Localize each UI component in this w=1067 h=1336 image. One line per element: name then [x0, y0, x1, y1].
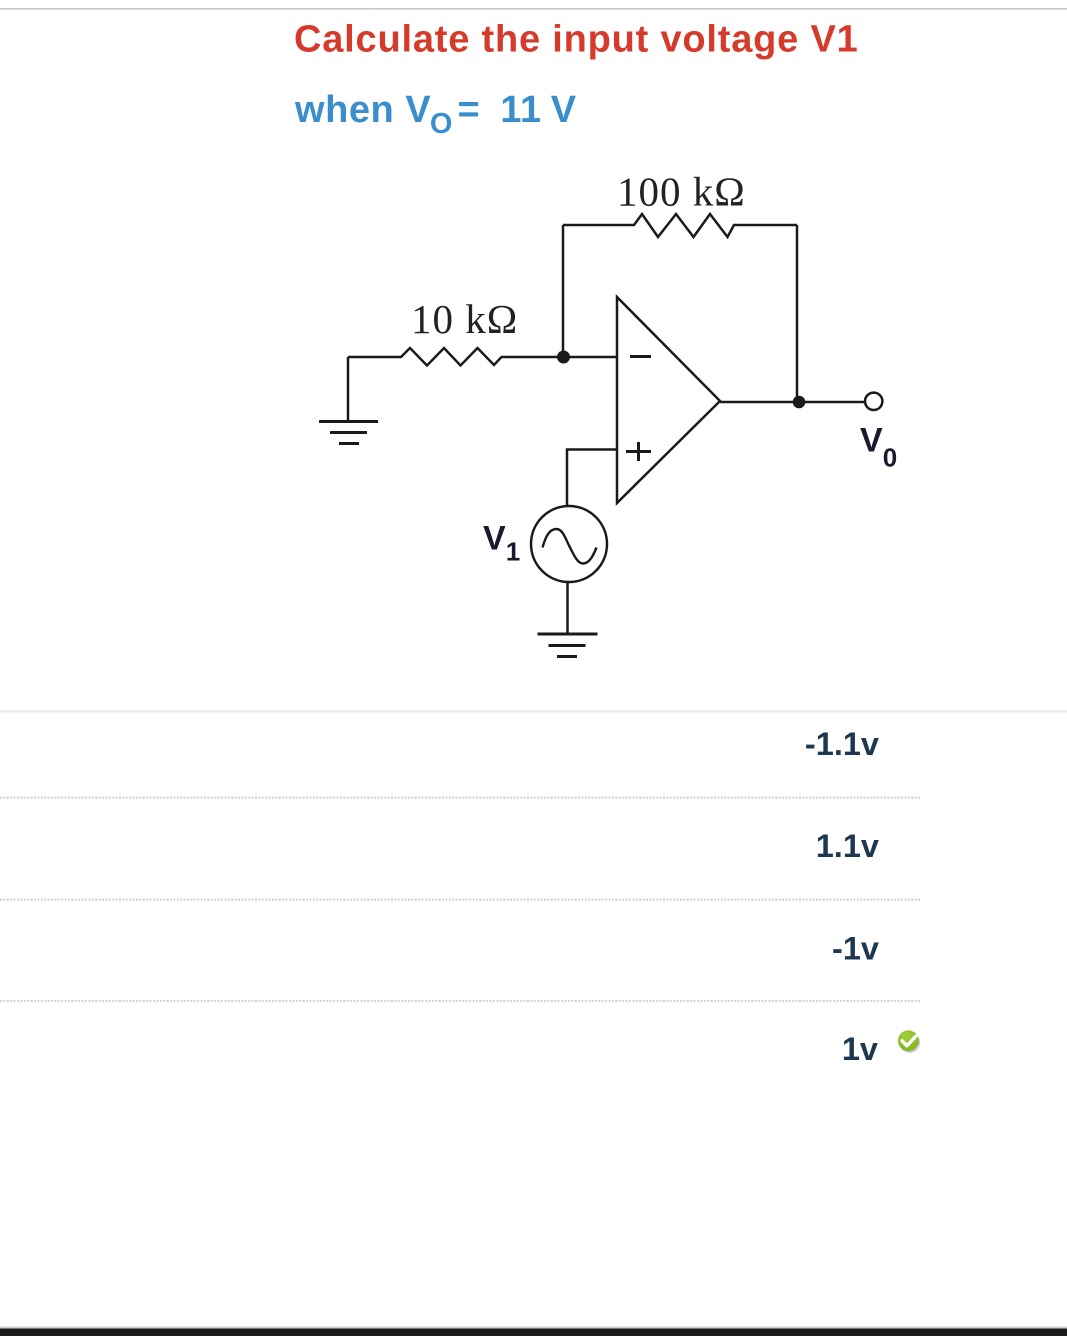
svg-text:when VO = 11 V: when VO = 11 V	[294, 89, 577, 140]
svg-text:V0: V0	[860, 422, 897, 473]
svg-text:V1: V1	[483, 520, 520, 567]
svg-text:1v: 1v	[842, 1031, 878, 1067]
svg-text:100 kΩ: 100 kΩ	[617, 169, 746, 215]
svg-text:-1v: -1v	[832, 931, 879, 967]
svg-text:10 kΩ: 10 kΩ	[411, 296, 518, 342]
svg-text:Calculate the input voltage V1: Calculate the input voltage V1	[294, 19, 859, 61]
svg-text:-1.1v: -1.1v	[805, 726, 879, 762]
svg-text:1.1v: 1.1v	[816, 828, 879, 864]
